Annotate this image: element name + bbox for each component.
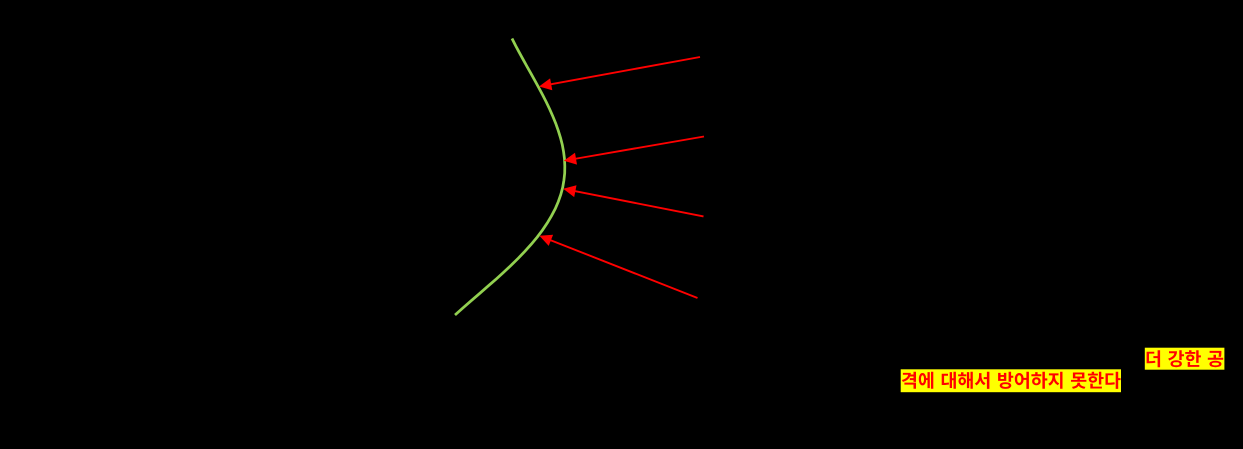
yellow highlight box line 2: [901, 369, 1121, 392]
red arrow 1 head: [539, 78, 552, 90]
korean text line 1: 더 강한 공: [1147, 350, 1224, 367]
red arrow 4 shaft: [549, 240, 697, 298]
red arrow 2 head: [564, 153, 577, 165]
korean text line 2: 격에 대해서 방어하지 못한다: [902, 372, 1121, 389]
red arrow 1 shaft: [549, 57, 700, 85]
red arrow 2 shaft: [574, 137, 704, 160]
red arrow 3 head: [563, 185, 576, 197]
yellow highlight box line 1: [1145, 348, 1225, 370]
red arrow 4 head: [539, 235, 553, 246]
green curve: [455, 39, 565, 316]
red arrow 3 shaft: [573, 191, 703, 217]
